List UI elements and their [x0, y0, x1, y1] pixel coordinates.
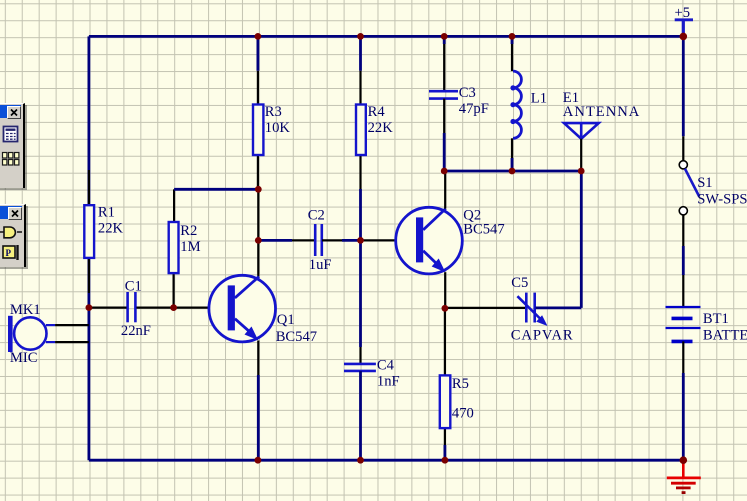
icon table: [4, 126, 18, 141]
svg-text:C5: C5: [511, 275, 528, 291]
junction L1 bottom: [509, 168, 516, 175]
svg-text:47pF: 47pF: [459, 101, 489, 117]
resistor R5: [440, 308, 474, 460]
capacitor C1: [121, 278, 151, 339]
resistor R3: [253, 36, 290, 189]
svg-text:C1: C1: [125, 278, 142, 294]
svg-text:L1: L1: [531, 90, 547, 106]
battery BT1: [666, 275, 747, 460]
capacitor C4: [344, 357, 400, 389]
svg-text:R1: R1: [98, 205, 115, 221]
junction R5 bottom rail: [442, 457, 449, 464]
wire Q2 collector pin: [444, 171, 446, 209]
junction ground corner: [680, 456, 688, 464]
junction C4 bottom rail: [357, 457, 364, 464]
wire bottom ground rail: [89, 459, 683, 462]
power symbol +5: [675, 5, 694, 36]
junction C2 wire to Q1 collector: [255, 237, 262, 244]
junction R4 top rail: [357, 33, 364, 40]
junction +5 corner: [680, 33, 688, 41]
svg-text:CAPVAR: CAPVAR: [511, 327, 574, 343]
capacitor C3: [429, 85, 489, 117]
icon digital objects: [3, 152, 19, 165]
wire tank bottom: [444, 170, 581, 173]
svg-text:BT1: BT1: [703, 311, 729, 327]
junction C1 left / left rail: [86, 304, 93, 311]
wire left rail: [88, 36, 91, 460]
wire C5 right to antenna column: [536, 171, 582, 308]
junction R2 to Q1 collector: [255, 186, 262, 193]
wire C1 left pin: [89, 307, 127, 309]
svg-text:BATTERY: BATTERY: [703, 327, 747, 343]
svg-text:C3: C3: [459, 85, 476, 101]
capacitor C2: [308, 207, 332, 273]
svg-text:22K: 22K: [368, 120, 394, 136]
junction C1 right / R2 bottom: [170, 304, 177, 311]
svg-text:1nF: 1nF: [377, 373, 400, 389]
svg-text:C4: C4: [377, 357, 395, 373]
resistor R1: [84, 170, 123, 293]
svg-text:S1: S1: [697, 175, 712, 191]
svg-text:MK1: MK1: [10, 302, 41, 318]
svg-text:ANTENNA: ANTENNA: [563, 104, 641, 120]
resistor R4: [356, 36, 393, 239]
capacitor C5 (CAPVAR): [511, 275, 574, 343]
svg-text:R4: R4: [368, 104, 386, 120]
svg-text:BC547: BC547: [463, 221, 504, 237]
ground: [667, 460, 701, 492]
wire C3 column top: [443, 36, 446, 91]
svg-text:Q1: Q1: [277, 312, 295, 328]
wire Q1 base pin: [174, 307, 210, 309]
icon gate: [0, 227, 22, 238]
junction antenna node: [578, 168, 585, 175]
junction C2 wire to R4 column: [357, 237, 364, 244]
inductor L1: [510, 36, 547, 171]
wire C3 bottom: [443, 99, 445, 171]
wire C1 right pin: [137, 307, 174, 309]
junction C3 bottom / Q2 collector: [441, 168, 448, 175]
antenna E1: [563, 90, 641, 171]
floating toolbar panel 2: [0, 204, 26, 267]
wire R2 top to Q1 collector: [174, 188, 258, 191]
wire C2 left: [258, 239, 315, 242]
svg-text:1uF: 1uF: [309, 257, 332, 273]
svg-text:+5: +5: [675, 5, 691, 21]
svg-text:10K: 10K: [265, 120, 291, 136]
svg-text:1M: 1M: [180, 239, 200, 255]
resistor R2: [169, 189, 201, 307]
svg-text:BC547: BC547: [276, 329, 317, 345]
wire C4 column top: [359, 240, 362, 364]
junction R3 top rail: [255, 33, 262, 40]
svg-text:22K: 22K: [98, 221, 124, 237]
svg-text:R2: R2: [180, 223, 197, 239]
svg-text:470: 470: [452, 405, 474, 421]
svg-text:SW-SPST: SW-SPST: [697, 192, 747, 208]
microphone MK1: [8, 302, 89, 366]
wire C4 bottom: [359, 371, 362, 460]
junction L1 top rail: [509, 33, 516, 40]
junction Q1 emitter bottom rail: [255, 457, 262, 464]
icon probe flag: [3, 245, 18, 260]
switch S1: [679, 36, 747, 275]
svg-text:R3: R3: [265, 104, 282, 120]
transistor Q2: [396, 207, 505, 274]
svg-text:R5: R5: [452, 376, 469, 392]
wire C2 right to R4 column: [322, 239, 361, 241]
wire Q2 emitter down: [444, 272, 446, 308]
transistor Q1: [209, 275, 317, 345]
wire Q1 collector column: [257, 189, 259, 276]
wire Q1 emitter down: [257, 341, 259, 461]
svg-text:22nF: 22nF: [121, 323, 151, 339]
svg-text:C2: C2: [308, 207, 325, 223]
wire Q2 base pin: [361, 239, 397, 241]
junction Q2 emitter / R5 top: [442, 305, 449, 312]
floating toolbar panel 1: [0, 103, 25, 188]
svg-text:P: P: [6, 248, 12, 258]
wire top power rail: [89, 35, 683, 38]
wire emitter to C5: [445, 307, 525, 309]
svg-text:MIC: MIC: [10, 350, 38, 366]
junction C3 top rail: [441, 33, 448, 40]
